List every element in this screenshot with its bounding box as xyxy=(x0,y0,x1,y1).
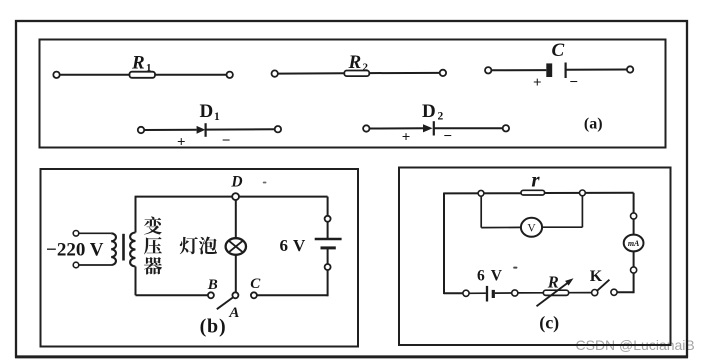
label transformer (bian ya qi) xyxy=(144,217,162,275)
outer frame bottom emphasis xyxy=(15,357,688,359)
svg-text:+: + xyxy=(402,129,411,145)
wire: bottom left xyxy=(136,294,208,296)
label R2 xyxy=(348,52,369,74)
panel (c) border xyxy=(399,168,671,346)
transformer secondary coil xyxy=(130,233,135,267)
svg-text:mA: mA xyxy=(628,239,640,248)
wire xyxy=(235,255,237,293)
node: D1 right terminal xyxy=(275,126,281,132)
wire xyxy=(542,226,582,228)
wire xyxy=(492,69,547,71)
svg-text:(c): (c) xyxy=(539,312,559,333)
wire xyxy=(569,292,592,294)
resistor r xyxy=(521,190,545,195)
wire xyxy=(495,292,512,294)
svg-text:+: + xyxy=(177,134,186,150)
wire xyxy=(469,292,486,294)
wire xyxy=(633,273,635,293)
wire xyxy=(617,291,634,293)
wire xyxy=(633,219,635,235)
battery 6V plate long xyxy=(486,286,488,302)
svg-text:R: R xyxy=(348,52,362,73)
capacitor C plate + xyxy=(546,63,552,77)
svg-text:1: 1 xyxy=(146,62,152,74)
svg-text:D: D xyxy=(422,101,436,122)
wire: secondary left edge lower xyxy=(135,267,137,296)
wire: panel b top xyxy=(135,196,328,198)
svg-text:B: B xyxy=(207,277,218,293)
node: R1 right terminal xyxy=(227,72,233,78)
battery 6V plate short xyxy=(321,246,336,249)
wire xyxy=(518,292,543,294)
wire: voltmeter branch left xyxy=(480,196,482,228)
voltmeter V xyxy=(521,218,542,237)
svg-text:D: D xyxy=(200,101,214,122)
switch blade xyxy=(217,297,233,309)
wire xyxy=(327,222,329,239)
transformer primary coil xyxy=(111,233,116,265)
node D xyxy=(232,193,239,200)
stray speck mark xyxy=(263,182,267,184)
svg-text:(b): (b) xyxy=(200,316,227,338)
wire xyxy=(481,226,521,228)
node: battery bottom terminal xyxy=(325,264,331,270)
svg-text:(a): (a) xyxy=(584,115,603,132)
variable resistor R xyxy=(543,290,568,295)
svg-text:R: R xyxy=(131,52,145,73)
node: battery left terminal xyxy=(463,290,469,296)
wire: right vertical upper xyxy=(633,193,635,213)
wire: right branch upper xyxy=(327,197,329,216)
node C xyxy=(251,292,257,298)
wire xyxy=(633,251,635,267)
node: C left terminal xyxy=(485,67,491,73)
svg-text:−220 V: −220 V xyxy=(46,240,104,261)
wire xyxy=(79,264,111,266)
wire xyxy=(144,129,196,131)
capacitor C plate - xyxy=(564,63,566,79)
wire xyxy=(370,127,423,129)
node: C right terminal xyxy=(627,66,633,72)
wire: right branch lower xyxy=(327,270,329,296)
wire xyxy=(235,200,237,239)
ammeter mA xyxy=(624,235,644,252)
stray dot mark xyxy=(513,267,517,269)
node: ammeter top terminal xyxy=(631,213,637,219)
wire: voltmeter branch right xyxy=(581,196,583,228)
node: switch K right xyxy=(611,289,617,295)
wire xyxy=(566,69,627,71)
battery 6V plate short xyxy=(492,290,495,298)
node: R1 left terminal xyxy=(53,72,59,78)
svg-text:+: + xyxy=(533,75,542,91)
wire xyxy=(327,248,329,264)
svg-text:1: 1 xyxy=(214,111,220,123)
node A (switch pivot) xyxy=(232,292,238,298)
diode D2 xyxy=(423,121,434,135)
wire xyxy=(60,74,130,76)
panel (a) border xyxy=(40,40,666,148)
node: source top terminal xyxy=(73,231,79,237)
diode D1 xyxy=(197,123,206,137)
svg-text:2: 2 xyxy=(363,61,369,73)
node: R2 left terminal xyxy=(272,70,278,76)
node: battery top terminal xyxy=(325,216,331,222)
label R1 xyxy=(131,52,152,74)
wire: bottom left corner segment xyxy=(444,292,463,294)
svg-text:2: 2 xyxy=(438,110,444,122)
wire xyxy=(434,127,503,129)
switch K blade xyxy=(597,280,609,291)
wire: bottom right xyxy=(257,294,328,296)
svg-text:R: R xyxy=(547,272,559,291)
wire: top right segment xyxy=(545,192,634,194)
svg-text:A: A xyxy=(228,305,239,321)
svg-text:r: r xyxy=(531,168,540,192)
svg-text:−: − xyxy=(569,75,578,91)
node: ammeter bottom terminal xyxy=(631,267,637,273)
svg-text:C: C xyxy=(250,276,261,292)
node: source bottom terminal xyxy=(73,262,79,268)
node: R2 right terminal xyxy=(440,70,446,76)
transformer core xyxy=(122,234,125,261)
battery 6V plate long xyxy=(315,238,342,240)
svg-text:−: − xyxy=(443,128,452,144)
wire xyxy=(369,72,439,74)
node: top right junction xyxy=(580,190,586,196)
svg-text:6 V: 6 V xyxy=(280,236,306,255)
resistor R1 xyxy=(130,72,156,78)
resistor R2 xyxy=(344,71,369,77)
node: switch K left xyxy=(592,290,598,296)
wire: left vertical xyxy=(443,193,445,295)
lamp (dengpao symbol) xyxy=(226,238,246,255)
wire xyxy=(278,72,344,74)
wire: top left segment xyxy=(444,192,521,194)
node: D2 right terminal xyxy=(503,125,509,131)
node: D1 left terminal xyxy=(138,127,144,133)
label D2 xyxy=(422,101,444,123)
wire xyxy=(79,232,111,234)
node: D2 left terminal xyxy=(363,125,369,131)
node: top left junction xyxy=(478,190,484,196)
svg-text:C: C xyxy=(552,40,565,61)
label lamp (deng pao) xyxy=(180,237,217,255)
svg-text:−: − xyxy=(222,133,231,149)
node B xyxy=(208,292,214,298)
wire: secondary left edge upper xyxy=(135,197,137,233)
svg-text:V: V xyxy=(527,222,536,234)
wire xyxy=(155,74,226,76)
svg-text:D: D xyxy=(230,173,242,190)
label D1 xyxy=(200,101,221,123)
node xyxy=(512,290,518,296)
arrow of variable resistor xyxy=(537,278,574,306)
wire xyxy=(206,128,275,130)
svg-text:6 V: 6 V xyxy=(477,267,503,284)
panel (b) border xyxy=(41,169,359,347)
svg-text:K: K xyxy=(590,268,603,285)
